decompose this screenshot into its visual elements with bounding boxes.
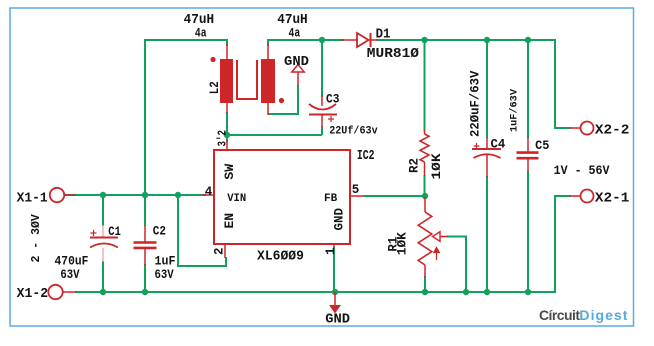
svg-text:L2: L2 — [207, 81, 222, 94]
svg-text:GND: GND — [333, 207, 347, 230]
svg-text:1uF: 1uF — [155, 254, 176, 268]
svg-text:GND: GND — [325, 313, 350, 328]
svg-text:22Uf/63v: 22Uf/63v — [329, 125, 378, 137]
svg-text:1ØK: 1ØK — [431, 153, 445, 180]
svg-text:X2-2: X2-2 — [595, 123, 629, 138]
svg-text:X1-1: X1-1 — [17, 190, 48, 205]
svg-text:2 - 3ØV: 2 - 3ØV — [30, 214, 43, 262]
svg-text:1ØK: 1ØK — [395, 232, 410, 255]
svg-text:4a: 4a — [289, 28, 301, 41]
svg-text:X1-2: X1-2 — [17, 286, 49, 301]
svg-text:D1: D1 — [376, 26, 391, 42]
svg-text:CírcuitDigest: CírcuitDigest — [539, 307, 628, 323]
svg-text:FB: FB — [324, 193, 338, 205]
svg-text:4: 4 — [205, 185, 213, 199]
svg-text:5: 5 — [352, 183, 360, 197]
svg-text:1V - 56V: 1V - 56V — [554, 163, 611, 178]
svg-text:2: 2 — [213, 247, 227, 255]
svg-text:MUR81Ø: MUR81Ø — [367, 46, 420, 61]
svg-text:470uF: 470uF — [55, 254, 89, 269]
svg-text:X2-1: X2-1 — [595, 191, 629, 206]
svg-text:IC2: IC2 — [357, 147, 375, 163]
svg-text:47uH: 47uH — [277, 12, 307, 27]
svg-text:GND: GND — [284, 55, 309, 70]
svg-text:XL6ØØ9: XL6ØØ9 — [257, 248, 304, 263]
svg-text:63V: 63V — [60, 268, 79, 282]
svg-text:1: 1 — [324, 247, 338, 255]
svg-text:4a: 4a — [195, 28, 207, 41]
svg-text:EN: EN — [222, 213, 237, 229]
svg-text:VIN: VIN — [227, 193, 246, 205]
svg-text:3'2: 3'2 — [216, 130, 229, 146]
svg-text:63V: 63V — [155, 268, 174, 282]
svg-text:C4: C4 — [491, 137, 506, 151]
svg-text:SW: SW — [222, 164, 237, 180]
svg-text:1uF/63V: 1uF/63V — [509, 88, 521, 132]
svg-text:C5: C5 — [535, 139, 549, 153]
svg-text:47uH: 47uH — [184, 12, 214, 27]
svg-text:22ØuF/63V: 22ØuF/63V — [469, 70, 483, 137]
svg-text:R2: R2 — [408, 158, 422, 173]
svg-text:C3: C3 — [326, 92, 339, 107]
svg-text:C2: C2 — [153, 224, 166, 239]
svg-text:C1: C1 — [108, 225, 121, 239]
